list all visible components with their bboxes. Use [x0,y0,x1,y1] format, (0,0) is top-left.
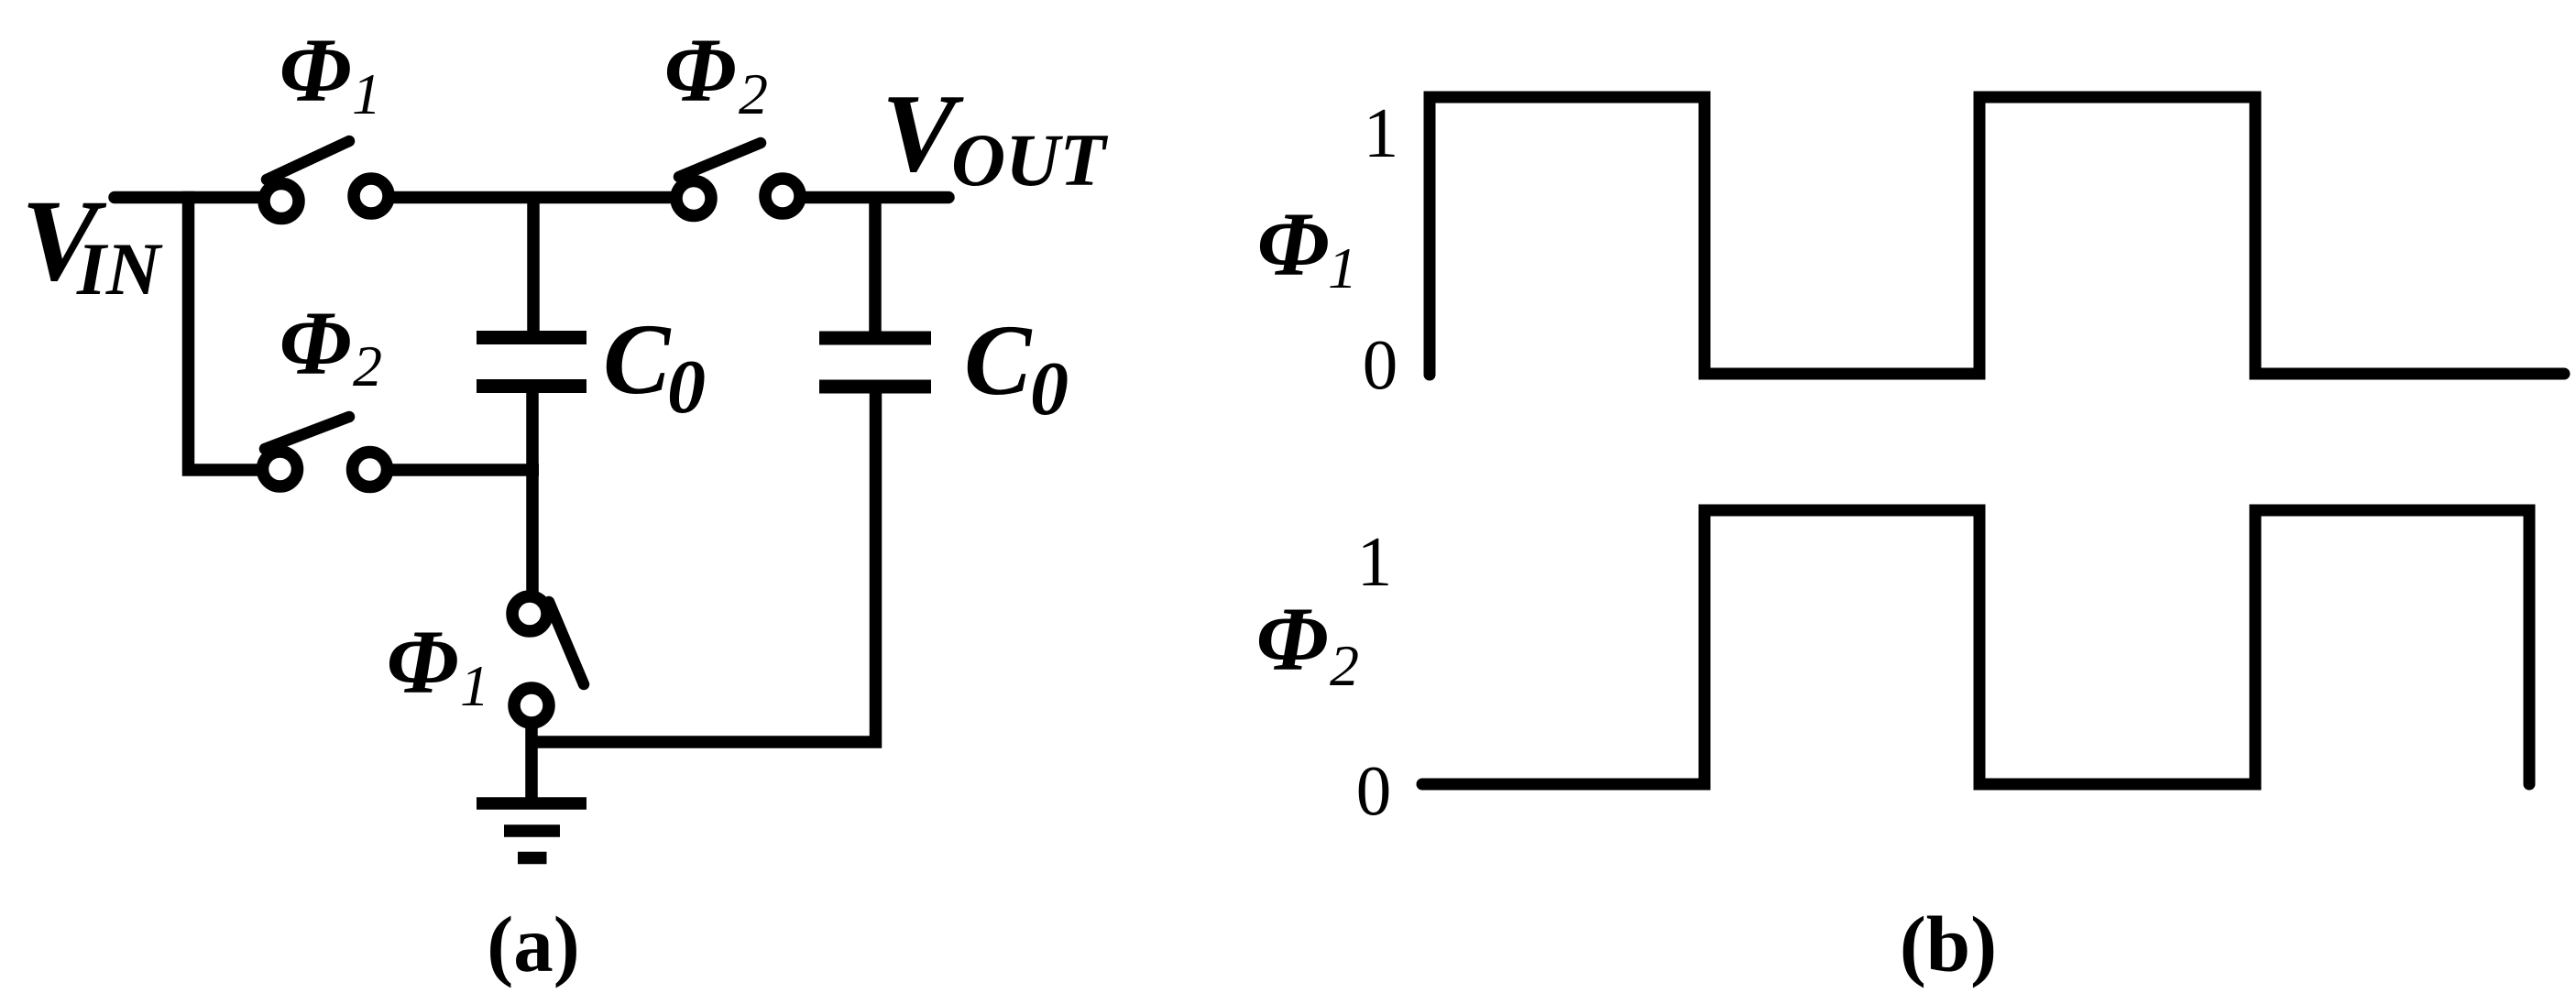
wire S4 to ground [525,727,538,799]
svg-text:2: 2 [739,61,768,126]
wire VIN vertical branch [189,191,258,470]
caption (b) [1900,900,1997,988]
svg-text:Φ: Φ [387,611,459,713]
label Φ2 waveform [1256,588,1359,698]
value label C0 left [603,303,706,430]
net VIN label [21,177,163,311]
label Φ2 of switch S3 [280,292,382,398]
svg-text:1: 1 [1364,93,1399,172]
svg-text:C: C [964,304,1033,416]
label Φ1 of switch S4 [387,611,489,718]
label Φ1 waveform [1257,193,1357,300]
svg-text:1: 1 [352,61,381,126]
svg-text:0: 0 [1363,325,1398,404]
svg-text:2: 2 [1330,633,1359,698]
switch S4 (phase 1) vertical [512,596,584,723]
axis tick label 0 (Φ2) [1356,751,1392,830]
svg-text:1: 1 [1357,522,1393,601]
switch S1 (phase 1) top [264,141,389,219]
wire bottom return and C0 right bottom lead [532,393,876,742]
label Φ2 of switch S2 [664,19,768,126]
svg-text:0: 0 [667,344,706,430]
switch S2 (phase 2) top right [676,143,800,216]
svg-text:(b): (b) [1900,900,1997,988]
ground [477,803,586,858]
switch S3 (phase 2) lower left [263,417,388,487]
svg-text:Φ: Φ [280,292,352,394]
axis tick label 1 (Φ2) [1357,522,1393,601]
net VOUT label [882,71,1108,202]
svg-text:1: 1 [460,653,489,718]
waveform Φ2 trace [1422,510,2529,784]
svg-text:0: 0 [1356,751,1392,830]
wire C0 left bottom lead [526,393,539,594]
caption (a) [487,900,579,988]
svg-text:Φ: Φ [1257,193,1330,295]
svg-text:C: C [603,303,672,415]
wire VIN stub [115,191,260,204]
svg-text:(a): (a) [487,900,579,988]
svg-text:Φ: Φ [1256,588,1329,690]
wire S2 to VOUT [805,191,948,204]
svg-text:0: 0 [1030,346,1069,431]
wire node A (S1 to S2, junction to C0 left) [393,191,672,204]
axis tick label 1 (Φ1) [1364,93,1399,172]
wire junction lead to C0 left top plate [527,198,540,332]
wire junction lead to C0 right top plate [869,198,882,333]
svg-text:1: 1 [1328,235,1357,300]
capacitor C0 left [477,338,586,387]
svg-text:Φ: Φ [280,19,352,121]
svg-text:IN: IN [76,227,163,311]
svg-text:Φ: Φ [664,19,737,121]
waveform Φ1 trace [1430,97,2564,375]
svg-text:2: 2 [353,333,382,398]
wire S3 to C0 left bottom node [392,464,539,476]
label Φ1 of switch S1 [280,19,381,126]
value label C0 right [964,304,1069,431]
axis tick label 0 (Φ1) [1363,325,1398,404]
svg-text:OUT: OUT [951,118,1108,202]
capacitor C0 right [819,338,931,387]
